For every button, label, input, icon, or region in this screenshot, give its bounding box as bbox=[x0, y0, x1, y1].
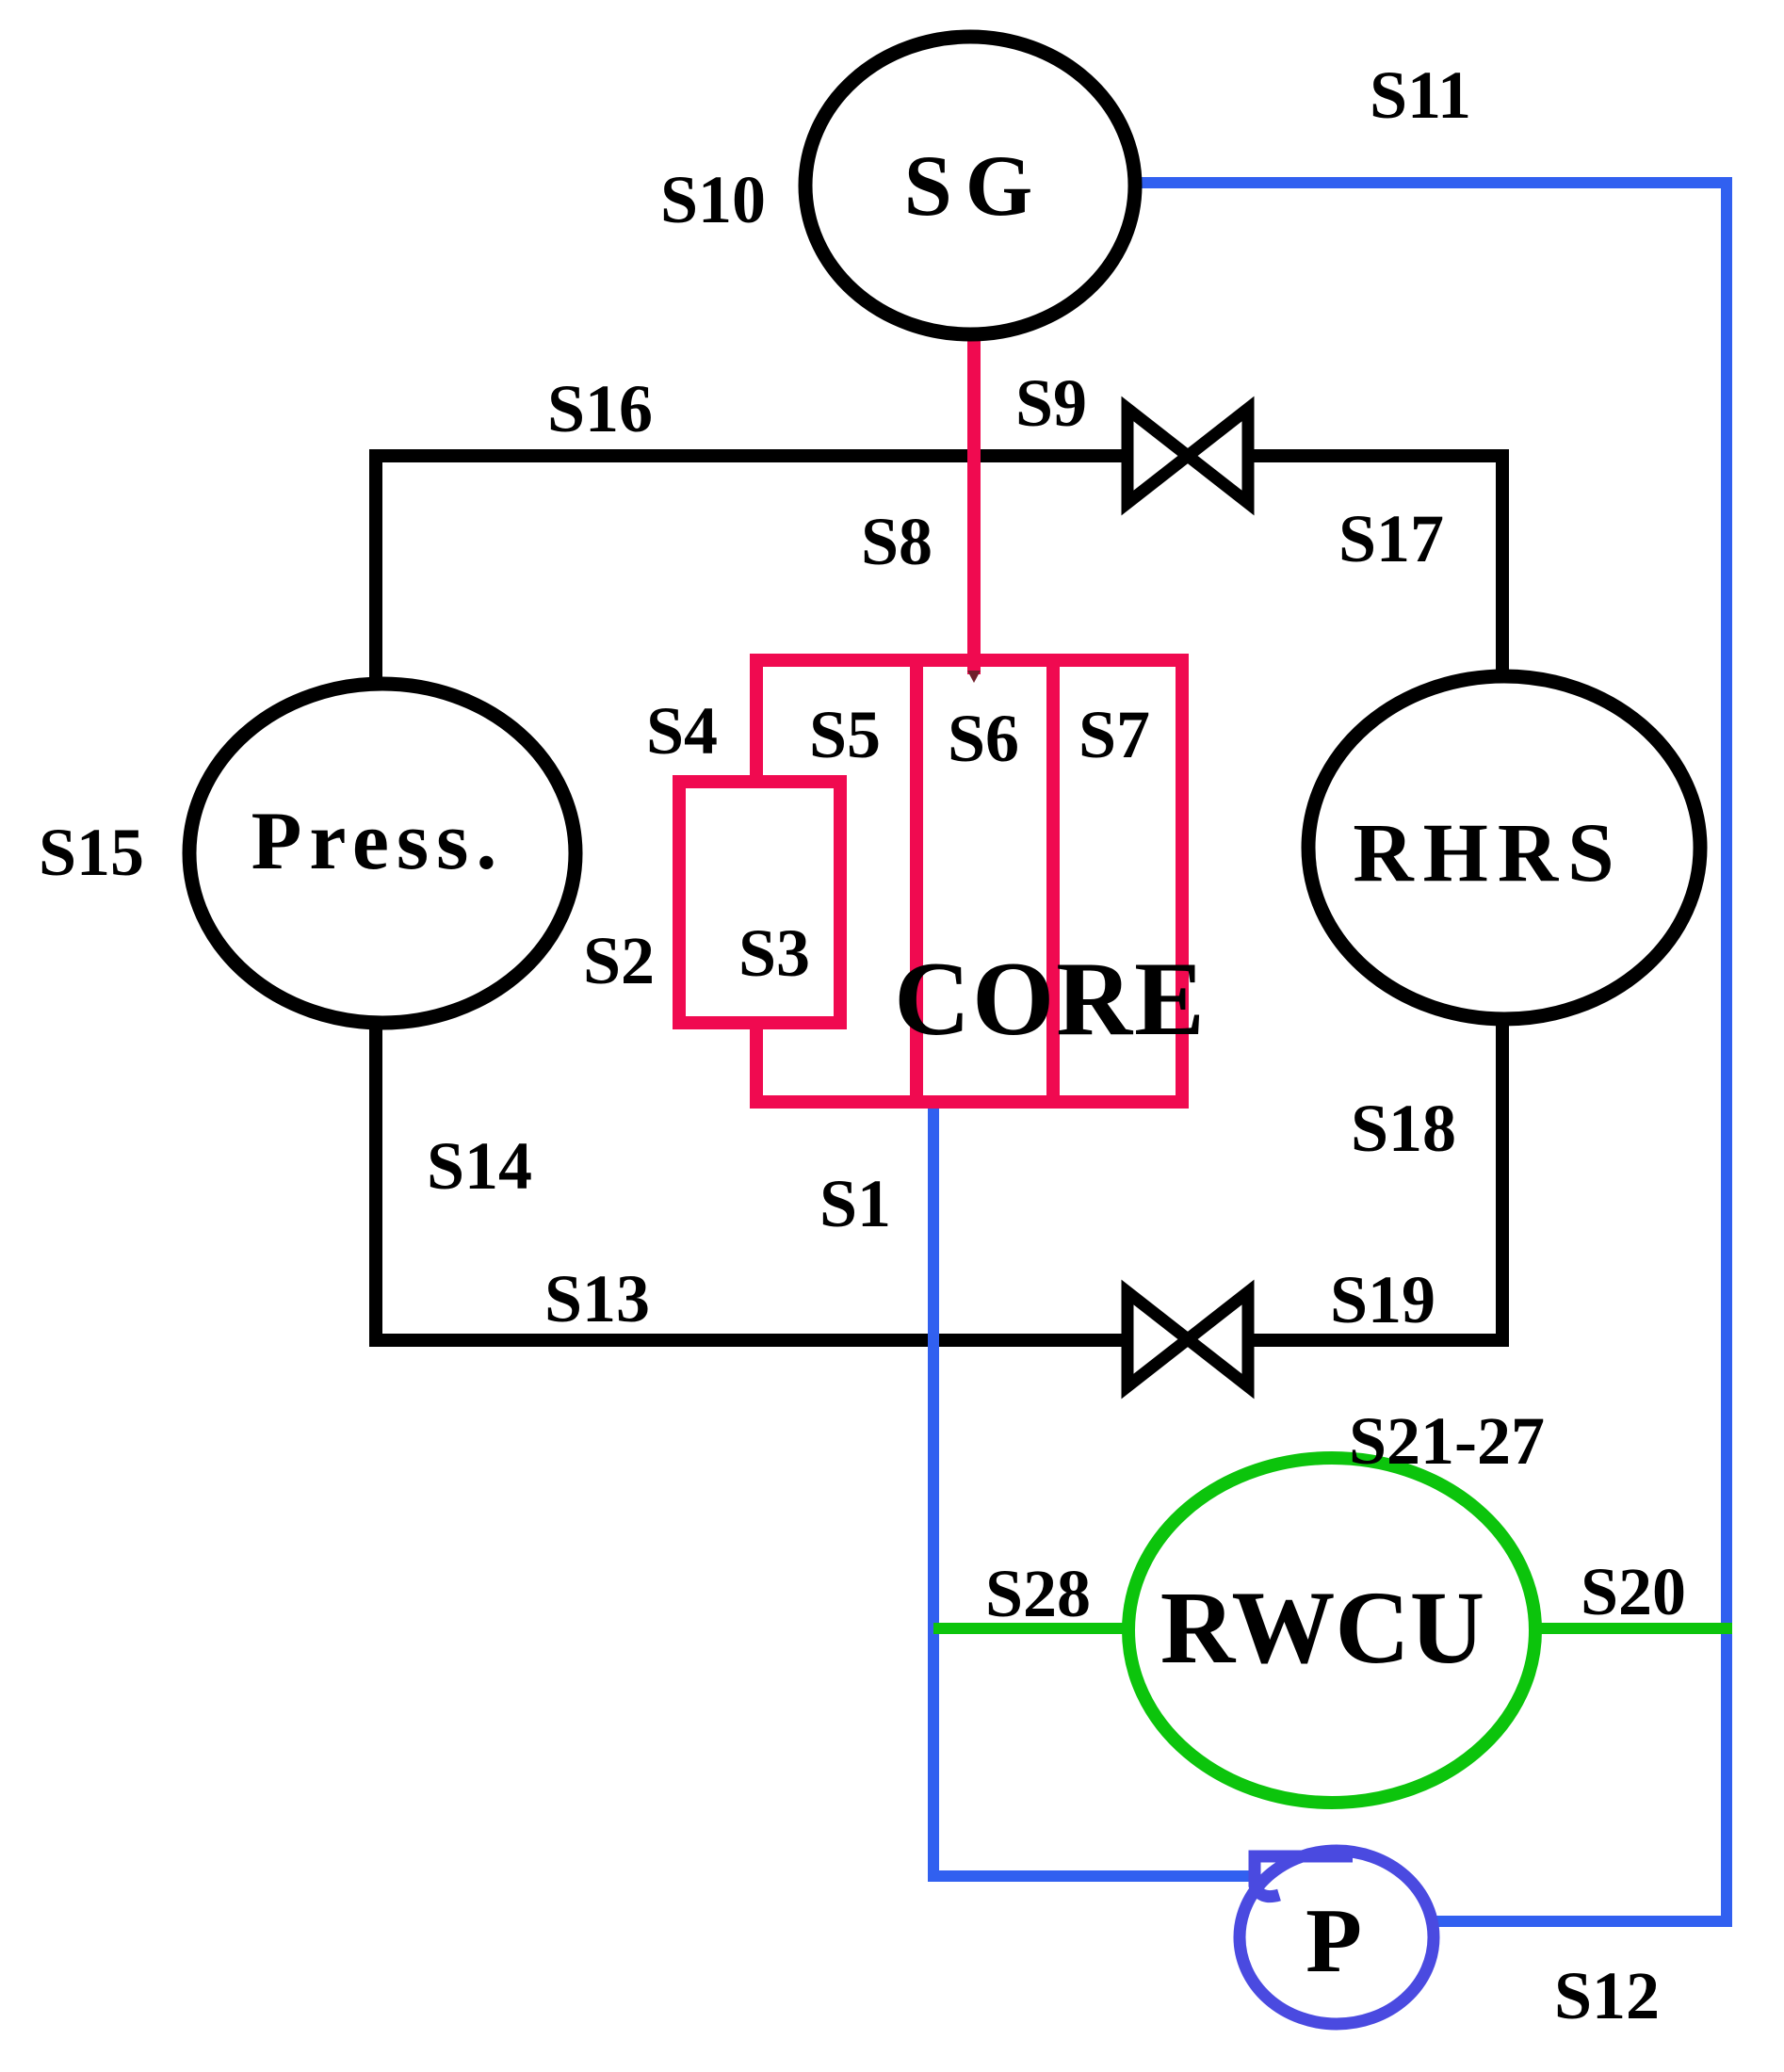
wire S11 (blue, SG outlet to right side down) bbox=[1128, 183, 1727, 1628]
component RHRS (residual heat removal circle) bbox=[1308, 676, 1700, 1019]
svg-text:S13: S13 bbox=[544, 1261, 650, 1336]
svg-text:RHRS: RHRS bbox=[1353, 807, 1623, 899]
svg-text:S11: S11 bbox=[1370, 57, 1471, 133]
wire S1 (blue, core outlet down and right to pump) bbox=[933, 1100, 1257, 1876]
wire S12 (blue, right side down to pump outlet) bbox=[1429, 1628, 1727, 1921]
svg-text:CORE: CORE bbox=[894, 941, 1207, 1058]
svg-text:S19: S19 bbox=[1330, 1262, 1435, 1337]
wire S18 bbox=[1496, 1015, 1509, 1347]
svg-text:S21-27: S21-27 bbox=[1349, 1403, 1545, 1479]
svg-text:S9: S9 bbox=[1015, 365, 1087, 441]
wire S28 (green, to RWCU) bbox=[933, 1623, 1130, 1634]
svg-text:S1: S1 bbox=[819, 1166, 891, 1241]
svg-text:S4: S4 bbox=[646, 693, 718, 769]
svg-text:P: P bbox=[1306, 1890, 1362, 1992]
svg-text:S3: S3 bbox=[738, 915, 810, 991]
svg-text:RWCU: RWCU bbox=[1160, 1570, 1484, 1685]
core channel divider S7 bbox=[1046, 660, 1060, 1102]
core outer vessel (pink rectangle) bbox=[756, 660, 1182, 1102]
core bypass box S3 (pink rectangle, white fill) bbox=[679, 782, 840, 1023]
component Press. (pressurizer circle) bbox=[189, 684, 576, 1023]
component RWCU (green circle) bbox=[1128, 1458, 1535, 1803]
svg-text:S28: S28 bbox=[985, 1556, 1091, 1631]
wire S19 bbox=[1246, 1334, 1502, 1347]
svg-text:S10: S10 bbox=[660, 162, 766, 237]
svg-text:S5: S5 bbox=[809, 697, 881, 772]
core channel divider S6 bbox=[910, 660, 923, 1102]
svg-text:S2: S2 bbox=[583, 923, 655, 998]
svg-text:S14: S14 bbox=[427, 1128, 532, 1204]
wire S20 (green, RWCU to right blue line) bbox=[1533, 1623, 1732, 1634]
wire S17 bbox=[1246, 456, 1502, 680]
svg-text:S18: S18 bbox=[1351, 1091, 1456, 1166]
wire S14 bbox=[369, 1021, 382, 1340]
svg-text:S17: S17 bbox=[1338, 501, 1444, 576]
svg-text:S16: S16 bbox=[547, 371, 653, 446]
svg-text:S12: S12 bbox=[1554, 1958, 1660, 2033]
valve V2 (on S13/S19 line) bbox=[1127, 1292, 1248, 1386]
svg-text:S15: S15 bbox=[39, 815, 144, 890]
svg-text:SG: SG bbox=[904, 138, 1046, 234]
component pump P (blue pump symbol) bbox=[1240, 1851, 1434, 2024]
svg-text:S8: S8 bbox=[861, 504, 933, 579]
svg-text:Press.: Press. bbox=[251, 796, 505, 887]
wire S9/S8 (pink, SG to core) bbox=[967, 330, 981, 674]
arrow tip at core inlet bbox=[967, 671, 981, 683]
svg-text:S20: S20 bbox=[1581, 1554, 1686, 1629]
valve V1 (on S9/S17 line) bbox=[1127, 409, 1248, 503]
component SG (steam generator circle) bbox=[805, 37, 1135, 334]
wire S16 bbox=[376, 456, 1132, 685]
svg-text:S6: S6 bbox=[948, 701, 1019, 776]
svg-text:S7: S7 bbox=[1079, 697, 1150, 772]
wire S13 bbox=[369, 1334, 1132, 1347]
